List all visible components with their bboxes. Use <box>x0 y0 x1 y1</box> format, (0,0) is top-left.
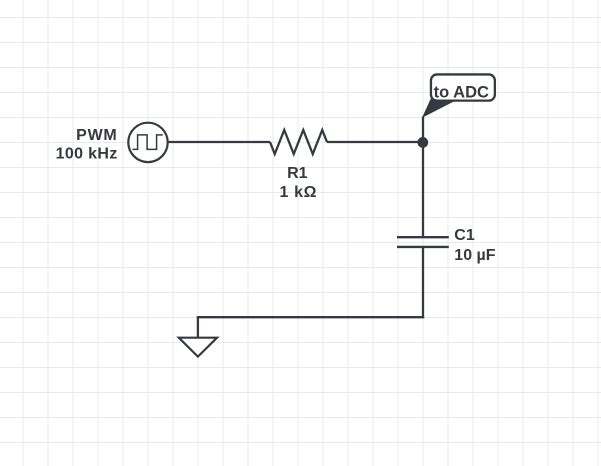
capacitor C1 (parallel plates) <box>397 237 449 247</box>
wire: PWM source output to resistor R1 <box>168 141 270 143</box>
label PWM (source name) <box>76 127 117 144</box>
label R1 <box>287 165 308 182</box>
resistor R1 (zigzag) <box>270 130 327 154</box>
callout "to ADC" (bubble with tail pointing at node) <box>423 74 495 116</box>
wire: resistor R1 to output node <box>327 141 423 143</box>
wire: horizontal run toward ground <box>197 316 424 318</box>
svg-text:R1: R1 <box>287 165 308 182</box>
wire: callout tail down through node to capacitor C1 top plate <box>422 117 424 238</box>
value label 10 µF <box>454 247 495 264</box>
node A (output node junction dot) <box>417 137 428 148</box>
wire: short vertical drop into ground symbol <box>197 317 199 337</box>
svg-text:1 kΩ: 1 kΩ <box>280 184 317 201</box>
label C1 <box>454 227 475 244</box>
value label 1 kΩ <box>280 184 317 201</box>
svg-text:100 kHz: 100 kHz <box>56 146 118 163</box>
ground <box>179 338 217 357</box>
wire: capacitor C1 bottom plate down to horizontal ground run <box>422 247 424 318</box>
value label 100 kHz <box>56 146 118 163</box>
source V1 PWM (square-wave source circle) <box>128 123 167 162</box>
svg-text:to ADC: to ADC <box>434 83 489 101</box>
svg-text:10 µF: 10 µF <box>454 247 495 264</box>
svg-text:C1: C1 <box>454 227 475 244</box>
svg-text:PWM: PWM <box>76 127 117 144</box>
